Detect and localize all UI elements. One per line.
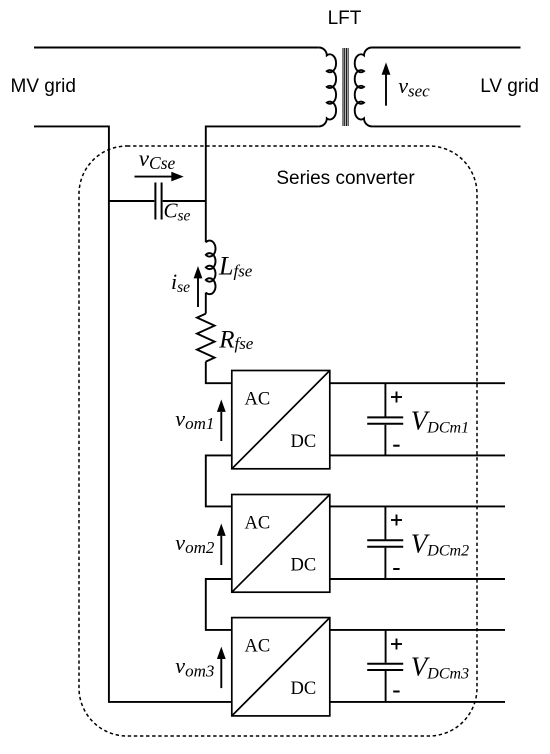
label plus 3 [391, 639, 402, 650]
svg-text:AC: AC [245, 514, 271, 534]
capacitor Cse plates [155, 183, 161, 220]
svg-text:Series converter: Series converter [276, 168, 415, 189]
wire LV grid top conductor [372, 47, 521, 49]
wire converter 1 lower left to converter 2 input [206, 455, 232, 506]
svg-text:MV grid: MV grid [11, 76, 76, 97]
dashed enclosure Series converter [79, 146, 477, 736]
svg-text:AC: AC [245, 637, 271, 657]
wire converter 3 DC output bottom [330, 701, 505, 703]
label minus 2 [393, 568, 399, 570]
converter U1 AC/DC box [232, 371, 330, 469]
label plus 1 [391, 392, 402, 403]
converter U2 AC/DC box [232, 495, 330, 593]
svg-text:LFT: LFT [328, 8, 362, 29]
arrow v_Cse [135, 172, 184, 182]
wire series converter node to transformer primary bottom [206, 126, 319, 201]
arrow v_om3 [217, 647, 226, 689]
resistor R_fse [197, 314, 215, 362]
label plus 2 [391, 515, 402, 526]
transformer LFT secondary winding [355, 48, 372, 127]
svg-text:LV grid: LV grid [480, 76, 539, 97]
wire converter 1 DC output top [330, 382, 505, 384]
wire left return bus to converter 3 [109, 201, 232, 702]
wire capacitor right lead [163, 200, 206, 202]
wire converter 2 DC output bottom [330, 578, 505, 580]
capacitor VDCm3 [367, 630, 403, 702]
wire inductor to resistor [205, 293, 207, 314]
svg-text:DC: DC [290, 555, 316, 575]
wire converter 2 lower left to converter 3 input [206, 579, 232, 630]
wire converter 1 DC output bottom [330, 454, 505, 456]
wire node to inductor [205, 201, 207, 242]
inductor L_fse [206, 241, 216, 295]
wire resistor to converter 1 input [206, 362, 232, 384]
label minus 3 [393, 691, 399, 693]
wire converter 3 DC output top [330, 629, 505, 631]
arrow v_om2 [217, 524, 226, 566]
wire converter 2 DC output top [330, 505, 505, 507]
capacitor VDCm2 [367, 506, 403, 579]
transformer core [343, 48, 348, 126]
label minus 1 [393, 445, 399, 447]
transformer LFT primary winding [319, 48, 336, 127]
wire capacitor left lead [109, 200, 154, 202]
svg-text:AC: AC [245, 390, 271, 410]
svg-text:DC: DC [290, 432, 316, 452]
wire LV grid bottom conductor [372, 125, 521, 127]
wire MV grid bottom conductor into series converter [34, 126, 109, 201]
converter U3 AC/DC box [232, 618, 330, 716]
arrow v_sec [382, 62, 391, 105]
wire MV grid top conductor [34, 47, 319, 49]
arrow i_se [194, 266, 203, 307]
arrow v_om1 [217, 400, 226, 442]
svg-text:DC: DC [290, 679, 316, 699]
capacitor VDCm1 [367, 383, 403, 455]
